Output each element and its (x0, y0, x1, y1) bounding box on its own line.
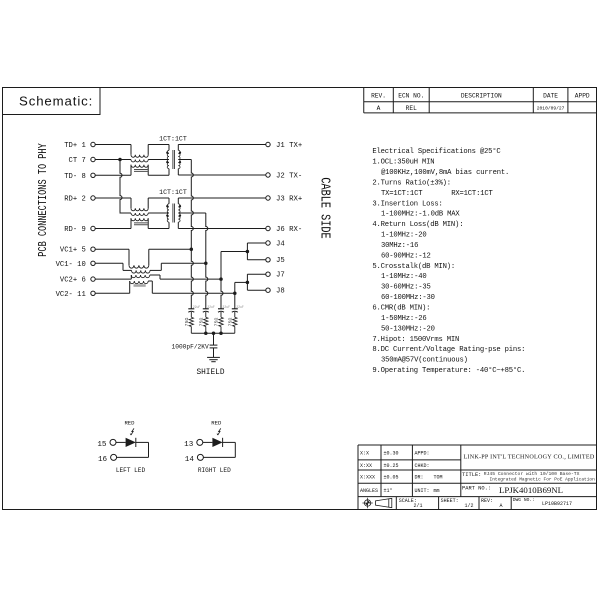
svg-text:VC1- 10: VC1- 10 (56, 261, 86, 269)
svg-text:RED: RED (124, 420, 135, 427)
svg-text:30MHz:-16: 30MHz:-16 (381, 242, 418, 250)
svg-text:5.Crosstalk(dB MIN):: 5.Crosstalk(dB MIN): (372, 263, 455, 271)
svg-text:ECN NO.: ECN NO. (398, 93, 424, 100)
svg-text:22uF: 22uF (222, 305, 230, 309)
svg-text:13: 13 (184, 441, 194, 449)
svg-text:±0.30: ±0.30 (384, 450, 399, 456)
svg-text:7.Hipot: 1500Vrms MIN: 7.Hipot: 1500Vrms MIN (372, 336, 459, 344)
svg-text:1-100MHz:-1.0dB MAX: 1-100MHz:-1.0dB MAX (381, 211, 460, 219)
svg-text:9.Operating Temperature: -40°C: 9.Operating Temperature: -40°C~+85°C. (372, 366, 525, 375)
svg-text:X:XX: X:XX (360, 463, 372, 469)
svg-text:VC2- 11: VC2- 11 (56, 291, 86, 299)
svg-text:60-90MHz:-12: 60-90MHz:-12 (381, 252, 431, 260)
svg-text:75Ω: 75Ω (228, 318, 234, 327)
svg-text:A: A (377, 105, 381, 112)
svg-text:DR:: DR: (415, 475, 424, 481)
svg-text:REL: REL (406, 105, 417, 112)
svg-text:1.OCL:350uH MIN: 1.OCL:350uH MIN (372, 159, 434, 167)
svg-text:ANGLES: ANGLES (360, 488, 378, 494)
svg-text:30-60MHz:-35: 30-60MHz:-35 (381, 284, 431, 292)
svg-text:SHEET:: SHEET: (441, 498, 459, 504)
svg-text:1/2: 1/2 (464, 503, 473, 509)
svg-text:TOM: TOM (434, 475, 443, 481)
svg-text:J6 RX-: J6 RX- (276, 226, 302, 234)
svg-text:VC2+ 6: VC2+ 6 (60, 277, 86, 285)
svg-text:SHIELD: SHIELD (196, 369, 224, 377)
svg-text:J3 RX+: J3 RX+ (276, 195, 302, 203)
svg-text:22uF: 22uF (207, 305, 215, 309)
svg-text:75Ω: 75Ω (184, 318, 190, 327)
svg-text:TD+ 1: TD+ 1 (64, 142, 86, 150)
svg-text:16: 16 (98, 456, 108, 464)
svg-text:APPD:: APPD: (415, 450, 430, 456)
svg-text:LPJK4010B69NL: LPJK4010B69NL (499, 485, 563, 495)
svg-text:PART NO.:: PART NO.: (462, 486, 491, 492)
svg-text:RD- 9: RD- 9 (64, 226, 86, 234)
svg-text:LINK-PP INT'L TECHNOLOGY CO.,: LINK-PP INT'L TECHNOLOGY CO., LIMITED (463, 454, 594, 460)
svg-text:REV.: REV. (371, 93, 386, 100)
svg-text:1CT:1CT: 1CT:1CT (159, 136, 187, 143)
svg-text:J8: J8 (276, 288, 285, 296)
svg-text:CHKD:: CHKD: (415, 463, 430, 469)
svg-text:RD+ 2: RD+ 2 (64, 196, 86, 204)
svg-text:REV:: REV: (481, 498, 493, 504)
svg-text:LEFT LED: LEFT LED (116, 467, 146, 474)
svg-text:CT 7: CT 7 (69, 157, 86, 165)
svg-text:4.Return Loss(dB MIN):: 4.Return Loss(dB MIN): (372, 221, 463, 229)
svg-text:X:X: X:X (360, 450, 369, 456)
svg-text:8.DC Current/Voltage Rating-ps: 8.DC Current/Voltage Rating-pse pins: (372, 346, 525, 354)
svg-text:2/1: 2/1 (413, 503, 422, 509)
svg-text:2.Turns Ratio(±3%):: 2.Turns Ratio(±3%): (372, 179, 451, 187)
svg-text:350mA@57V(continuous): 350mA@57V(continuous) (381, 357, 468, 365)
svg-text:mm: mm (434, 488, 440, 494)
svg-text:J1 TX+: J1 TX+ (276, 142, 302, 150)
svg-text:1CT:1CT: 1CT:1CT (159, 189, 187, 196)
svg-text:14: 14 (185, 456, 195, 464)
svg-text:6.CMR(dB MIN):: 6.CMR(dB MIN): (372, 305, 430, 313)
svg-text:VC1+ 5: VC1+ 5 (60, 247, 86, 255)
svg-text:1000pF/2KV: 1000pF/2KV (172, 343, 209, 350)
svg-text:Electrical Specifications @25°: Electrical Specifications @25°C (372, 147, 501, 156)
svg-text:J2 TX-: J2 TX- (276, 172, 302, 180)
svg-text:PCB CONNECTIONS TO PHY: PCB CONNECTIONS TO PHY (37, 143, 51, 257)
svg-text:TITLE:: TITLE: (462, 472, 481, 478)
svg-text:15: 15 (97, 441, 107, 449)
svg-text:@100KHz,100mV,8mA bias current: @100KHz,100mV,8mA bias current. (381, 169, 509, 177)
svg-text:1-50MHz:-26: 1-50MHz:-26 (381, 315, 426, 323)
svg-text:22uF: 22uF (193, 305, 201, 309)
svg-text:±1°: ±1° (384, 488, 393, 494)
svg-text:±0.25: ±0.25 (384, 463, 399, 469)
svg-text:75Ω: 75Ω (214, 318, 220, 327)
svg-text:±0.05: ±0.05 (384, 475, 399, 481)
svg-text:LP10B92717: LP10B92717 (542, 501, 572, 507)
svg-text:J4: J4 (276, 240, 285, 248)
svg-text:75Ω: 75Ω (199, 318, 205, 327)
svg-text:DATE: DATE (543, 93, 558, 100)
svg-text:CABLE SIDE: CABLE SIDE (317, 177, 333, 238)
svg-text:TX=1CT:1CT RX=1CT:1CT: TX=1CT:1CT RX=1CT:1CT (381, 190, 493, 198)
svg-text:J7: J7 (276, 272, 285, 280)
svg-text:TD- 8: TD- 8 (64, 173, 86, 181)
svg-text:A: A (499, 503, 502, 509)
svg-text:2010/09/27: 2010/09/27 (537, 106, 565, 112)
svg-text:RIGHT LED: RIGHT LED (198, 467, 231, 474)
svg-text:DESCRIPTION: DESCRIPTION (461, 93, 502, 100)
svg-text:RED: RED (211, 420, 222, 427)
svg-text:1-10MHz:-20: 1-10MHz:-20 (381, 232, 426, 240)
svg-text:APPD: APPD (575, 93, 590, 100)
svg-text:J5: J5 (276, 257, 285, 265)
svg-text:3.Insertion Loss:: 3.Insertion Loss: (372, 200, 442, 208)
svg-text:22uF: 22uF (236, 305, 244, 309)
svg-text:50-130MHz:-20: 50-130MHz:-20 (381, 325, 435, 333)
svg-text:UNIT:: UNIT: (415, 488, 430, 494)
svg-text:Schematic:: Schematic: (19, 94, 93, 109)
svg-text:60-100MHz:-30: 60-100MHz:-30 (381, 294, 435, 302)
svg-text:1-10MHz:-40: 1-10MHz:-40 (381, 273, 426, 281)
svg-text:RJ45 Connector with 10/100 Bas: RJ45 Connector with 10/100 Base-TX (484, 471, 580, 477)
svg-text:Integrated Magnetic For PoE Ap: Integrated Magnetic For PoE Application (490, 477, 596, 483)
svg-text:X:XXX: X:XXX (360, 475, 375, 481)
svg-text:DWG NO.:: DWG NO.: (513, 497, 535, 503)
